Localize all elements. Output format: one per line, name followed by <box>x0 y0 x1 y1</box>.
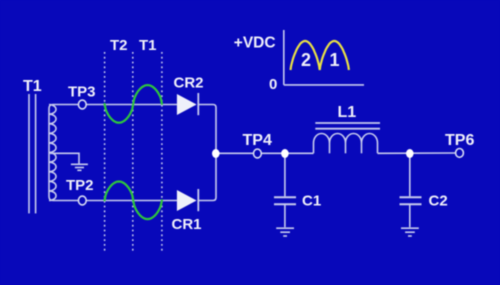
svg-text:T1: T1 <box>23 78 42 95</box>
svg-text:C1: C1 <box>302 193 321 210</box>
svg-text:T2: T2 <box>110 37 128 54</box>
svg-text:TP2: TP2 <box>66 177 94 194</box>
svg-text:0: 0 <box>269 76 277 93</box>
svg-text:TP3: TP3 <box>68 84 96 101</box>
svg-text:2: 2 <box>301 50 311 70</box>
svg-text:+VDC: +VDC <box>234 35 276 52</box>
svg-text:C2: C2 <box>429 193 448 210</box>
svg-text:TP4: TP4 <box>243 132 272 149</box>
svg-text:T1: T1 <box>139 37 157 54</box>
svg-text:L1: L1 <box>338 104 357 121</box>
svg-text:CR2: CR2 <box>174 75 204 92</box>
svg-text:CR1: CR1 <box>172 216 202 233</box>
svg-text:1: 1 <box>330 50 340 70</box>
svg-text:TP6: TP6 <box>445 132 474 149</box>
